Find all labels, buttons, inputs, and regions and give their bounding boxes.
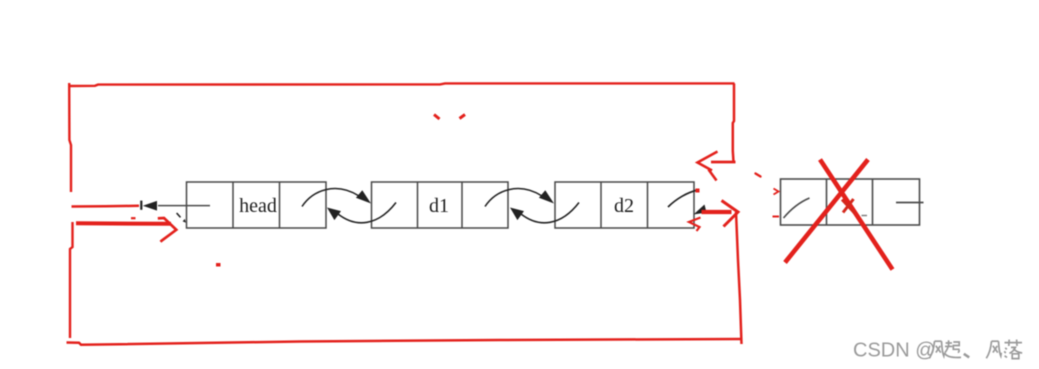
red mid line 1 [72,205,140,208]
node head box [187,182,327,228]
black dashed mini arrow at head corner [177,213,186,223]
small gray dash [862,215,868,217]
watermark glyph feng 2 [986,341,1001,358]
arrowhead d1-to-d2 [539,190,554,203]
watermark glyph feng 1 [929,341,944,358]
red X stroke 1 [820,160,893,270]
svg-text:d1: d1 [429,195,449,217]
arc stub removed node prev [784,198,810,218]
red left vertical upper [69,83,71,192]
watermark glyph luo [1004,340,1022,359]
watermark glyph dun-comma [964,354,969,358]
svg-text:CSDN @: CSDN @ [853,340,936,362]
red chevron at removed box left [774,189,779,195]
watermark glyph qi [945,340,961,357]
arc stub d2 next [668,190,698,207]
arrowhead d2-to-d1 [510,208,524,221]
red chevron right of d2 [722,201,739,227]
red top line [69,83,735,86]
red thick arrow right of d2 [702,210,732,214]
node d1 box [372,182,509,228]
arrowhead d1-to-head [327,208,341,221]
removed node box [781,179,920,225]
node d2 box [555,182,694,228]
red hook below d2 corner [689,218,701,232]
arrowhead removed-node prev to d2 [694,205,707,215]
red dash upper right [756,174,761,177]
red mid line 2 [76,221,171,226]
small red x in cell [842,199,855,213]
svg-text:d2: d2 [614,195,634,217]
red left vertical lower [70,222,73,338]
red right vertical upper [733,83,734,162]
red bottom line [67,339,742,345]
red right vertical lower [736,212,742,344]
red chevron arrow to head [158,218,177,242]
arc d1 prev to head [338,203,396,223]
arc d1 next to d2 [485,189,542,207]
arc head next to d1 [302,189,359,207]
arc d2 prev to d1 [521,203,579,223]
removed node next line [896,202,924,204]
red dash top middle 2 [460,115,466,119]
red dot lower left [216,263,221,267]
red hook arrow to d2 top [698,152,736,181]
svg-text:head: head [239,195,277,217]
red dash at removed box left edge [773,216,780,218]
red dash above line 2 [131,217,136,219]
head prev arrow out left [140,201,210,211]
red dash top middle 1 [434,115,440,120]
red X stroke 2 [785,160,868,263]
arrowhead head-to-d1 [356,190,371,203]
red dot at d2 corner [696,189,700,193]
